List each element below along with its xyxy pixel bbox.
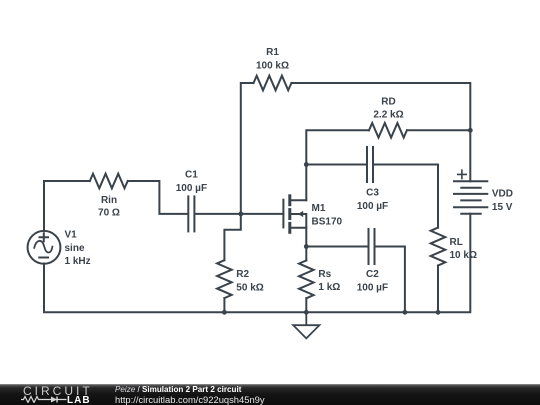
capacitor C3 — [367, 147, 373, 182]
svg-text:100 µF: 100 µF — [176, 183, 207, 194]
wire C3 to RL — [374, 165, 438, 228]
ground — [293, 312, 319, 338]
svg-text:Rs: Rs — [318, 269, 331, 280]
capacitor C1 — [188, 196, 194, 231]
footer title text — [115, 385, 241, 394]
wire Rin to C1 corner — [129, 181, 188, 214]
transistor M1 source lead — [291, 228, 306, 247]
resistor Rs (vertical) — [299, 260, 314, 298]
node RD/VDD junction — [468, 128, 473, 133]
logo LAB text — [67, 396, 91, 405]
svg-text:C2: C2 — [366, 269, 379, 280]
svg-text:R2: R2 — [236, 269, 249, 280]
wire C3 row left — [306, 164, 366, 166]
footer bar — [0, 384, 540, 405]
transistor M1 drain lead — [291, 199, 306, 201]
capacitor C2 — [369, 229, 375, 264]
resistor Rin — [90, 174, 128, 189]
svg-text:15 V: 15 V — [492, 202, 513, 213]
resistor RD — [369, 123, 407, 138]
svg-text:10 kΩ: 10 kΩ — [450, 250, 477, 261]
node C2 bottom junction — [403, 310, 408, 315]
wire R1 to VDD rail — [292, 83, 471, 130]
battery plus sign — [458, 170, 467, 178]
V1 minus sign — [39, 257, 48, 259]
svg-text:100 µF: 100 µF — [357, 201, 388, 212]
svg-text:M1: M1 — [312, 203, 326, 214]
logo CIRCUIT text — [23, 385, 93, 398]
svg-text:RL: RL — [450, 237, 463, 248]
transistor M1 arrow — [298, 211, 303, 217]
svg-text:Rin: Rin — [101, 195, 117, 206]
wire R2 to bottom rail — [223, 298, 225, 312]
transistor M1 gate bar — [282, 200, 284, 228]
svg-text:70 Ω: 70 Ω — [98, 208, 120, 219]
wire C2 row left — [306, 246, 367, 248]
node RL bottom junction — [436, 310, 441, 315]
voltage source V1 circle — [28, 231, 61, 264]
svg-text:C1: C1 — [185, 170, 198, 181]
svg-text:V1: V1 — [65, 230, 78, 241]
svg-text:100 kΩ: 100 kΩ — [256, 60, 289, 71]
svg-text:RD: RD — [381, 96, 395, 107]
wire gate node to M1 gate — [241, 213, 284, 215]
wire bottom rail — [44, 214, 470, 313]
node source junction — [304, 244, 309, 249]
transistor M1 channel segments — [288, 196, 291, 233]
svg-text:1 kΩ: 1 kΩ — [318, 282, 340, 293]
wire VDD rail down to battery — [469, 130, 471, 181]
battery VDD plates — [454, 181, 487, 213]
footer url text — [115, 394, 265, 405]
svg-text:VDD: VDD — [492, 189, 513, 200]
logo resistor-diode line — [20, 395, 70, 403]
transistor M1 body lead — [291, 214, 306, 228]
node gate junction — [238, 212, 243, 217]
svg-text:2.2 kΩ: 2.2 kΩ — [373, 110, 403, 121]
svg-text:50 kΩ: 50 kΩ — [236, 283, 263, 294]
node R2 bottom junction — [222, 310, 227, 315]
wire RD to VDD rail — [407, 129, 470, 131]
resistor RL (vertical) — [431, 228, 446, 266]
wire C1 to gate node — [195, 213, 240, 215]
resistor R2 (vertical) — [217, 260, 232, 298]
wire RL to bottom rail — [437, 266, 439, 313]
node drain/C3 junction — [304, 162, 309, 167]
svg-text:1 kHz: 1 kHz — [65, 256, 91, 267]
wire V1 top to Rin — [44, 181, 90, 231]
resistor R1 — [254, 76, 292, 91]
V1 sine symbol — [34, 241, 52, 253]
V1 plus sign — [40, 233, 49, 241]
wire C2 to bottom rail — [376, 247, 405, 313]
wire Rs to bottom rail — [305, 298, 307, 312]
svg-text:100 µF: 100 µF — [357, 282, 388, 293]
svg-text:C3: C3 — [366, 188, 379, 199]
wire R2 jog from gate node — [224, 214, 240, 260]
svg-text:BS170: BS170 — [312, 217, 343, 228]
svg-text:R1: R1 — [266, 47, 279, 58]
svg-text:sine: sine — [65, 243, 85, 254]
node ground junction — [304, 310, 309, 315]
wire drain vertical — [306, 130, 369, 200]
wire R1 left vertical — [241, 83, 254, 214]
wire source node to Rs — [305, 247, 307, 261]
